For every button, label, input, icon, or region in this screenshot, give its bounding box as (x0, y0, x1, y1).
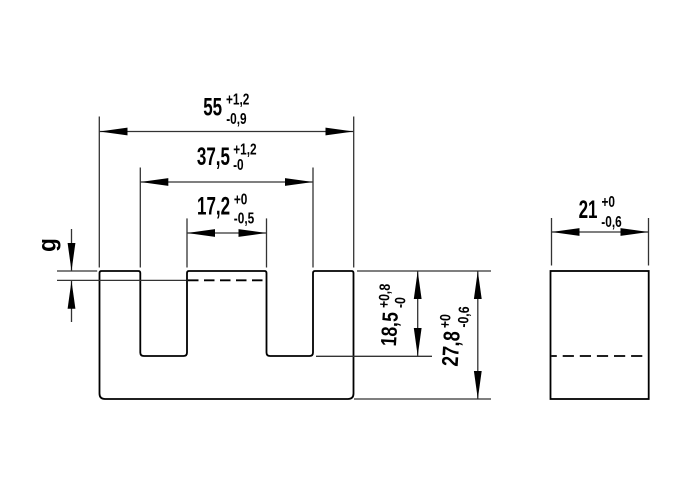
extension lines for 37,5 (139, 168, 141, 268)
g dimension line + arrows (71, 229, 73, 271)
svg-text:+1,2: +1,2 (226, 90, 250, 108)
extension lines for 17,2 (186, 218, 188, 267)
svg-text:+0: +0 (234, 190, 248, 208)
svg-text:-0,6: -0,6 (601, 212, 622, 230)
svg-text:17,2: 17,2 (197, 192, 230, 220)
dimension line 17,2 with arrowheads (187, 232, 267, 234)
right side extension lines (top, slot bottom, bottom) (357, 270, 491, 272)
svg-text:-0,5: -0,5 (234, 209, 255, 227)
svg-text:g: g (34, 238, 62, 252)
dashed line in side view (551, 355, 648, 357)
extension lines for 55 (98, 117, 100, 268)
dimension line 37,5 with arrowheads (140, 181, 313, 183)
dimension line 18,5 with arrowheads (417, 271, 419, 356)
svg-text:-0,9: -0,9 (226, 109, 247, 127)
svg-text:27,8: 27,8 (438, 330, 466, 367)
svg-text:-0: -0 (392, 296, 409, 308)
svg-text:+0,8: +0,8 (376, 283, 394, 309)
svg-text:18,5: 18,5 (377, 311, 403, 347)
extension lines for 21 (551, 218, 553, 266)
side view rectangle (21 wide) (551, 271, 649, 399)
svg-text:37,5: 37,5 (197, 143, 230, 171)
dashed gap line on center leg (188, 279, 266, 281)
svg-text:+0: +0 (602, 192, 616, 210)
svg-text:+0: +0 (437, 313, 454, 328)
E-core front view outline (55 x 27,8 E-core cross-section) (100, 271, 354, 399)
dimension line 21 with arrowheads (552, 231, 649, 233)
dimension line 55 with arrowheads (100, 131, 354, 133)
svg-text:21: 21 (579, 196, 598, 224)
g dimension extension lines (57, 270, 97, 272)
svg-text:55: 55 (203, 93, 222, 121)
svg-text:-0: -0 (233, 155, 244, 173)
svg-text:-0,6: -0,6 (455, 306, 473, 328)
dimension line 27,8 with arrowheads (477, 271, 479, 399)
